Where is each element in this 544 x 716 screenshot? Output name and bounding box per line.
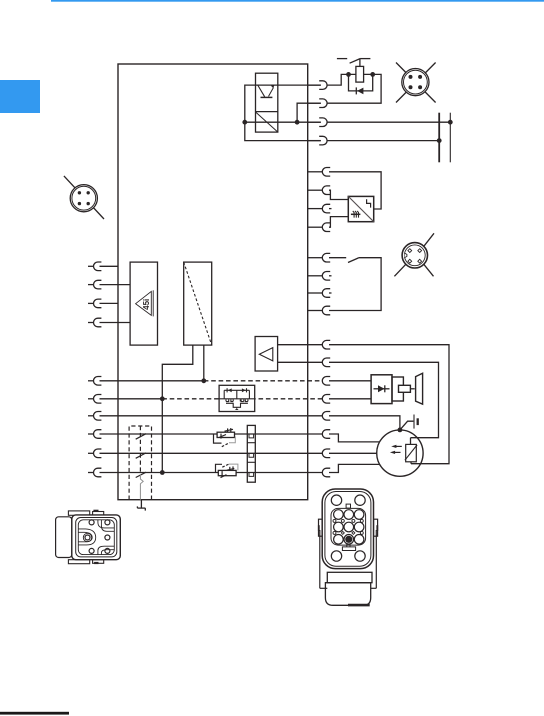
- svg-text:45i: 45i: [142, 299, 151, 310]
